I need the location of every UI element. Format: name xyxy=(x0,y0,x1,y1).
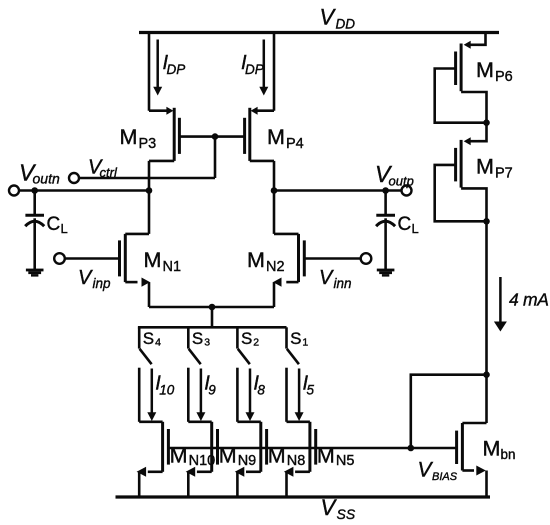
label IDP left xyxy=(163,52,186,77)
svg-text:1: 1 xyxy=(302,337,308,349)
svg-text:S: S xyxy=(241,329,252,348)
terminal Vinp xyxy=(54,253,65,264)
svg-text:outn: outn xyxy=(33,171,60,187)
svg-text:DP: DP xyxy=(167,62,186,77)
current arrow I8 xyxy=(246,369,255,422)
wire MN10 source to VSS xyxy=(138,472,141,497)
transistor MP4 (PMOS) xyxy=(245,107,274,161)
node tail junction xyxy=(209,304,216,311)
ground symbol left xyxy=(26,269,44,277)
svg-text:M: M xyxy=(476,58,494,82)
wire bus to switch S1 xyxy=(285,327,288,348)
net label VDD xyxy=(320,5,356,32)
label 4 mA xyxy=(509,290,549,310)
node MP7 drain-gate xyxy=(483,218,490,225)
wire switch S4 to MN10 drain xyxy=(138,368,141,422)
svg-text:P7: P7 xyxy=(495,166,513,182)
svg-text:M: M xyxy=(267,125,285,149)
current arrow IDP right xyxy=(259,40,268,96)
wire switch bus xyxy=(138,326,287,329)
wire bus to switch S2 xyxy=(236,327,239,348)
svg-text:8: 8 xyxy=(257,383,265,398)
wire VDD to MP4 source xyxy=(273,33,276,111)
wire MN2 source down xyxy=(273,282,276,307)
svg-text:SS: SS xyxy=(337,506,356,522)
switch S2 blade xyxy=(238,349,250,364)
label MN1 xyxy=(144,248,182,275)
node Voutn junction xyxy=(146,187,153,194)
VSS power rail xyxy=(116,495,491,498)
label IDP right xyxy=(241,52,264,77)
svg-text:4 mA: 4 mA xyxy=(509,290,549,310)
svg-text:2: 2 xyxy=(253,337,259,349)
wire bus to switch S4 xyxy=(138,327,141,348)
transistor MN9 (NMOS) xyxy=(186,422,218,477)
label MP4 xyxy=(267,125,304,152)
svg-text:3: 3 xyxy=(204,337,210,349)
net label Voutp xyxy=(375,161,414,189)
svg-text:L: L xyxy=(412,221,419,236)
wire CL to ground xyxy=(33,218,36,269)
current arrow I9 xyxy=(196,369,205,422)
svg-text:DP: DP xyxy=(245,62,264,77)
wire MN8 source to VSS xyxy=(236,472,239,497)
node VBIAS junction xyxy=(408,445,415,452)
svg-text:4: 4 xyxy=(155,337,161,349)
ground symbol right xyxy=(377,269,395,277)
svg-text:V: V xyxy=(320,5,337,30)
svg-text:inn: inn xyxy=(334,276,352,291)
label S3 xyxy=(192,329,210,349)
label MP7 xyxy=(476,155,513,182)
wire MN5 source to VSS xyxy=(285,472,288,497)
wire gate node down to Vctrl line xyxy=(214,137,217,178)
svg-text:9: 9 xyxy=(208,383,216,398)
node CL right junction xyxy=(382,187,389,194)
wire Mbn source to VSS xyxy=(485,471,488,498)
svg-text:5: 5 xyxy=(307,383,315,398)
wire MP7 drain to Mbn drain xyxy=(485,221,488,423)
wire VDD to MP3 source xyxy=(148,33,151,111)
svg-text:M: M xyxy=(247,248,265,272)
transistor MP3 (PMOS) xyxy=(149,107,179,161)
switch S4 blade xyxy=(140,349,152,364)
svg-text:outp: outp xyxy=(389,174,414,189)
wire MN9 source to VSS xyxy=(187,472,190,497)
svg-text:M: M xyxy=(144,248,162,272)
node MP3/MP4 gates xyxy=(212,133,219,140)
label S2 xyxy=(241,329,259,349)
label MN9 xyxy=(219,444,257,470)
label MP6 xyxy=(476,58,513,85)
current arrow I5 xyxy=(295,369,304,422)
VDD power rail xyxy=(139,31,499,34)
label I9 xyxy=(204,373,216,398)
net label Vinn xyxy=(319,267,352,291)
net label Vinp xyxy=(78,267,111,291)
net label Voutn xyxy=(19,160,60,187)
svg-text:10: 10 xyxy=(159,383,175,398)
node Mbn drain-gate xyxy=(483,371,490,378)
switch S1 blade xyxy=(287,349,299,364)
svg-text:S: S xyxy=(192,329,203,348)
svg-text:N1: N1 xyxy=(163,259,182,275)
svg-text:M: M xyxy=(476,155,494,179)
wire switch S1 to MN5 drain xyxy=(285,368,288,422)
svg-text:N8: N8 xyxy=(287,453,306,469)
label Mbn xyxy=(483,437,516,463)
svg-text:V: V xyxy=(321,495,338,520)
current arrow 4mA xyxy=(494,277,507,332)
wire common source tail xyxy=(149,306,274,309)
svg-text:N5: N5 xyxy=(336,453,355,469)
net label VBIAS xyxy=(418,459,458,484)
current arrow IDP left xyxy=(153,40,162,96)
transistor MN1 (NMOS) xyxy=(120,234,151,287)
terminal Voutn xyxy=(9,186,19,196)
wire Vinn to MN2 gate xyxy=(304,257,360,260)
svg-text:V: V xyxy=(319,267,334,289)
svg-text:ctrl: ctrl xyxy=(100,165,118,180)
svg-text:P3: P3 xyxy=(139,136,157,152)
label CL left xyxy=(47,214,68,236)
label MN8 xyxy=(268,444,306,470)
terminal Vctrl xyxy=(69,173,79,183)
switch S3 blade xyxy=(189,349,201,364)
svg-text:L: L xyxy=(61,221,68,236)
svg-text:C: C xyxy=(398,214,412,235)
terminal Voutp xyxy=(402,186,412,196)
svg-text:M: M xyxy=(483,437,501,461)
node CL left junction xyxy=(31,187,38,194)
wire Voutp to CL xyxy=(384,191,387,216)
wire Voutn line xyxy=(19,189,149,192)
transistor MN2 (NMOS) xyxy=(273,234,304,287)
node MP6 drain-gate xyxy=(483,119,490,126)
wire Voutp line xyxy=(274,189,402,192)
label S1 xyxy=(290,329,308,349)
current arrow I10 xyxy=(147,369,156,422)
transistor Mbn (NMOS) xyxy=(457,423,487,476)
wire MP4 drain to MN2 drain xyxy=(273,161,276,234)
svg-text:M: M xyxy=(120,125,138,149)
svg-text:S: S xyxy=(290,329,301,348)
net label VSS xyxy=(321,495,356,522)
capacitor CL right xyxy=(376,215,395,226)
label MN10 xyxy=(170,444,216,470)
transistor MP6 (PMOS) xyxy=(435,33,487,123)
label CL right xyxy=(398,214,419,236)
wire common gate line to VBIAS xyxy=(168,447,456,450)
net label Vctrl xyxy=(88,157,118,181)
svg-text:DD: DD xyxy=(336,17,356,32)
wire CL right to ground xyxy=(384,218,387,269)
transistor MN5 (NMOS) xyxy=(284,422,316,477)
svg-text:S: S xyxy=(143,329,154,348)
label S4 xyxy=(143,329,161,349)
transistor MN10 (NMOS) xyxy=(137,422,169,477)
svg-text:P6: P6 xyxy=(495,69,513,85)
capacitor CL left xyxy=(25,215,44,226)
wire MP3 drain to MN1 drain xyxy=(148,161,151,234)
label I10 xyxy=(155,373,175,398)
svg-text:inp: inp xyxy=(93,276,112,291)
svg-text:bn: bn xyxy=(501,447,516,462)
svg-text:V: V xyxy=(78,267,93,289)
wire Vctrl to gate node xyxy=(79,177,215,180)
terminal Vinn xyxy=(361,253,372,264)
label I5 xyxy=(303,373,315,398)
wire switch S2 to MN8 drain xyxy=(236,368,239,422)
wire Mbn gate feedback xyxy=(411,375,487,448)
wire bus to switch S3 xyxy=(187,327,190,348)
wire MN1 source down xyxy=(148,282,151,307)
wire tail to switch bus xyxy=(211,307,214,327)
wire switch S3 to MN9 drain xyxy=(187,368,190,422)
wire MP3 gate to MP4 gate xyxy=(179,135,244,138)
svg-text:P4: P4 xyxy=(286,136,304,152)
label MN5 xyxy=(317,444,355,470)
node Voutp junction xyxy=(271,187,278,194)
wire Vinp to MN1 gate xyxy=(65,257,120,260)
label MN2 xyxy=(247,248,285,275)
svg-text:N9: N9 xyxy=(238,453,257,469)
wire Voutn to CL xyxy=(33,191,36,216)
svg-text:C: C xyxy=(47,214,61,235)
transistor MP7 (PMOS) xyxy=(435,123,487,222)
svg-text:N2: N2 xyxy=(266,259,285,275)
transistor MN8 (NMOS) xyxy=(235,422,267,477)
label MP3 xyxy=(120,125,157,152)
svg-text:BIAS: BIAS xyxy=(432,471,458,483)
label I8 xyxy=(253,373,265,398)
